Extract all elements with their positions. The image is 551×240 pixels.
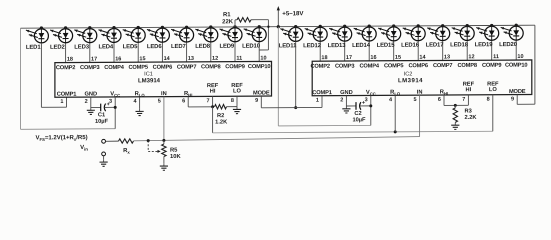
svg-text:COMP1: COMP1 bbox=[57, 92, 76, 98]
svg-text:2.2K: 2.2K bbox=[465, 115, 478, 121]
wire: dot-mode carry, IC1 MODE pin 9 to IC2 COMP1 pin 1 bbox=[261, 96, 322, 108]
svg-text:LM3914: LM3914 bbox=[398, 78, 423, 84]
wire: LED1 cathode down left side of IC1 to pin 1 bbox=[41, 43, 66, 108]
svg-text:LED13: LED13 bbox=[328, 43, 347, 49]
svg-text:17: 17 bbox=[346, 55, 352, 61]
svg-text:HI: HI bbox=[210, 89, 216, 95]
LED LED20: indicator LED symbol with emission arrows, anode on V+ rail bbox=[499, 24, 523, 60]
svg-text:R5: R5 bbox=[170, 148, 178, 154]
svg-text:10K: 10K bbox=[170, 154, 181, 160]
potentiometer R5 10K (wiper dashed to node) bbox=[148, 140, 181, 160]
svg-text:14: 14 bbox=[419, 55, 426, 61]
wire: IC2 pin 5 (IN) down to input line bbox=[419, 95, 421, 136]
svg-text:IN: IN bbox=[417, 90, 423, 96]
svg-text:COMP3: COMP3 bbox=[80, 65, 99, 71]
op-amp/driver IC2 LM3914 block bbox=[312, 60, 532, 96]
LED LED9: indicator LED symbol with emission arrows, anode on V+ rail bbox=[219, 25, 242, 61]
svg-text:COMP8: COMP8 bbox=[457, 63, 476, 69]
svg-text:+5–18V: +5–18V bbox=[282, 10, 304, 17]
svg-text:10µF: 10µF bbox=[95, 119, 109, 125]
wire: input line from Rx to IC2 pin 5, taps for IC1 pin 5 and R5 bbox=[134, 137, 420, 143]
svg-text:5: 5 bbox=[413, 97, 416, 103]
svg-text:8: 8 bbox=[487, 97, 490, 103]
svg-text:R2: R2 bbox=[217, 113, 224, 119]
node ground return terminal below Vin bbox=[100, 152, 108, 166]
svg-text:16: 16 bbox=[115, 56, 121, 62]
svg-text:LED6: LED6 bbox=[147, 44, 162, 50]
LED LED17: indicator LED symbol with emission arrows, anode on V+ rail bbox=[426, 24, 450, 60]
capacitor C1 10uF electrolytic, IC1 pin 2 to pin 3 bbox=[91, 102, 115, 125]
svg-text:LED17: LED17 bbox=[426, 42, 445, 48]
svg-text:LED5: LED5 bbox=[123, 44, 138, 50]
svg-text:LED18: LED18 bbox=[450, 42, 469, 48]
ground at IC1 pin 2 (GND) bbox=[87, 97, 95, 114]
capacitor C2 10uF electrolytic, IC2 pin 2 to pin 3 bbox=[346, 100, 370, 123]
svg-text:2: 2 bbox=[340, 97, 343, 103]
svg-text:14: 14 bbox=[164, 56, 171, 62]
svg-text:1: 1 bbox=[60, 99, 63, 105]
ground below R5 bbox=[160, 157, 168, 171]
svg-text:GND: GND bbox=[84, 91, 97, 97]
op-amp/driver IC1 LM3914 block bbox=[55, 61, 272, 97]
svg-text:LED1: LED1 bbox=[26, 45, 41, 51]
svg-text:Rx: Rx bbox=[123, 148, 130, 155]
wire: V+ from rail down between ICs to IC2 pin 3 bbox=[278, 26, 371, 126]
resistor R1 22K (parallel with LED10, V+ to pin 10 of IC1) bbox=[222, 12, 269, 50]
svg-text:11: 11 bbox=[236, 56, 242, 62]
LED LED19: indicator LED symbol with emission arrows, anode on V+ rail bbox=[475, 24, 499, 60]
svg-text:LED8: LED8 bbox=[195, 44, 210, 50]
wire: IC2 MODE pin 9 to V+ rail (right side) bbox=[517, 25, 535, 104]
LED LED13: indicator LED symbol with emission arrows, anode on V+ rail bbox=[328, 25, 352, 61]
ground below R3 bbox=[451, 122, 459, 129]
svg-text:11: 11 bbox=[493, 54, 499, 60]
svg-text:LED12: LED12 bbox=[303, 43, 322, 49]
svg-text:COMP2: COMP2 bbox=[310, 64, 329, 70]
LED LED10: indicator LED symbol with emission arrows, anode on V+ rail bbox=[242, 25, 266, 61]
svg-text:22K: 22K bbox=[222, 19, 234, 25]
svg-text:COMP6: COMP6 bbox=[153, 65, 172, 71]
svg-text:COMP1: COMP1 bbox=[312, 90, 331, 96]
svg-text:6: 6 bbox=[438, 97, 441, 103]
svg-text:COMP7: COMP7 bbox=[433, 63, 452, 69]
wire: V+ LED anode rail across top bbox=[21, 25, 535, 28]
svg-text:COMP3: COMP3 bbox=[335, 64, 354, 70]
LED LED18: indicator LED symbol with emission arrows, anode on V+ rail bbox=[450, 24, 474, 60]
svg-text:15: 15 bbox=[139, 56, 145, 62]
svg-text:LED3: LED3 bbox=[74, 44, 89, 50]
wire: IC2 pin 3 (Vcc) down to V+ line from supply bbox=[369, 95, 372, 125]
wire: IC1 pin 6 (R_HI) tied to pin 7 (REF HI) bbox=[188, 96, 214, 108]
resistor Rx in series with input/reference bbox=[119, 139, 134, 155]
svg-text:C1: C1 bbox=[98, 112, 105, 118]
LED LED12: indicator LED symbol with emission arrows, anode on V+ rail bbox=[303, 25, 327, 61]
svg-text:COMP4: COMP4 bbox=[359, 63, 379, 69]
svg-text:COMP6: COMP6 bbox=[408, 63, 427, 69]
svg-text:IN: IN bbox=[161, 91, 167, 97]
IC2 bottom pin numbers 1..9 bbox=[316, 96, 514, 103]
wire: IC2 pin 6 (R_HI) tied to pin 7 (REF HI) bbox=[444, 95, 468, 107]
svg-text:COMP2: COMP2 bbox=[56, 65, 75, 71]
svg-text:COMP10: COMP10 bbox=[248, 64, 270, 70]
IC1 top pin numbers 18..10 bbox=[67, 55, 267, 62]
svg-text:LED2: LED2 bbox=[50, 45, 65, 51]
svg-text:17: 17 bbox=[91, 56, 97, 62]
svg-text:5: 5 bbox=[158, 98, 161, 104]
node Vin input terminal bbox=[80, 139, 105, 151]
LED LED11: indicator LED symbol with emission arrows, anode on V+ rail bbox=[279, 25, 303, 49]
svg-text:HI: HI bbox=[466, 87, 472, 93]
ground at IC1 pin 8 (REF LO) bbox=[233, 96, 241, 113]
LED LED3: indicator LED symbol with emission arrows, anode on V+ rail bbox=[74, 26, 97, 62]
svg-text:9: 9 bbox=[511, 96, 514, 102]
IC2 top pin numbers 18..10 bbox=[321, 54, 523, 61]
IC1 bottom pin numbers 1..9 bbox=[60, 98, 258, 105]
svg-text:IC1: IC1 bbox=[144, 72, 153, 78]
wire: IC2 pin 4 (R_LO) down to reference line bbox=[394, 95, 396, 132]
wire: IC1 REF HI (pin 7) down and across to IC2 R_LO (pin 4) and REF LO (pin 8) bbox=[213, 95, 493, 135]
svg-text:18: 18 bbox=[321, 55, 327, 61]
svg-text:COMP9: COMP9 bbox=[225, 64, 244, 70]
node +5-18V supply entry with up arrow bbox=[277, 6, 305, 28]
resistor R2 1.2K between IC1 pin 7 and pin 8 bbox=[215, 104, 238, 125]
svg-text:12: 12 bbox=[212, 56, 218, 62]
svg-text:R3: R3 bbox=[465, 108, 472, 114]
svg-text:COMP10: COMP10 bbox=[505, 63, 527, 69]
wire: input line from Vin terminal bbox=[106, 140, 119, 142]
LED LED7: indicator LED symbol with emission arrows, anode on V+ rail bbox=[171, 26, 194, 62]
svg-text:1.2K: 1.2K bbox=[215, 119, 228, 125]
svg-text:LED16: LED16 bbox=[401, 43, 420, 49]
svg-text:COMP4: COMP4 bbox=[104, 65, 124, 71]
LED LED6: indicator LED symbol with emission arrows, anode on V+ rail bbox=[147, 26, 170, 62]
svg-text:LED15: LED15 bbox=[377, 43, 396, 49]
svg-text:IC2: IC2 bbox=[404, 71, 413, 77]
svg-text:LO: LO bbox=[233, 89, 241, 95]
svg-text:13: 13 bbox=[444, 54, 450, 60]
svg-text:7: 7 bbox=[462, 97, 465, 103]
svg-text:MODE: MODE bbox=[509, 89, 526, 95]
svg-text:LED7: LED7 bbox=[171, 44, 186, 50]
LED LED5: indicator LED symbol with emission arrows, anode on V+ rail bbox=[123, 26, 146, 62]
svg-text:10µF: 10µF bbox=[352, 117, 366, 123]
svg-text:GND: GND bbox=[340, 90, 353, 96]
svg-text:LED10: LED10 bbox=[242, 43, 261, 49]
IC1 bottom pin labels bbox=[57, 83, 270, 99]
svg-text:LED9: LED9 bbox=[219, 44, 234, 50]
svg-text:8: 8 bbox=[231, 98, 234, 104]
svg-text:13: 13 bbox=[188, 56, 194, 62]
svg-text:9: 9 bbox=[255, 98, 258, 104]
svg-text:1: 1 bbox=[316, 98, 319, 104]
svg-text:LM3914: LM3914 bbox=[138, 78, 161, 84]
svg-text:COMP7: COMP7 bbox=[177, 64, 196, 70]
wire: IC1 pin 3 (Vcc) down to V+ bottom line bbox=[114, 97, 117, 129]
svg-text:Vin: Vin bbox=[80, 145, 88, 152]
resistor R3 2.2K from IC2 REF to ground bbox=[453, 105, 477, 122]
svg-text:COMP5: COMP5 bbox=[128, 65, 147, 71]
svg-text:15: 15 bbox=[395, 55, 401, 61]
value label: full-scale formula bbox=[36, 135, 88, 142]
wire: IC1 pin 5 (IN) down to input line bbox=[163, 97, 165, 141]
LED LED8: indicator LED symbol with emission arrows, anode on V+ rail bbox=[195, 25, 218, 61]
svg-text:18: 18 bbox=[67, 57, 73, 63]
svg-text:LED14: LED14 bbox=[352, 43, 371, 49]
svg-text:LO: LO bbox=[489, 87, 497, 93]
svg-text:7: 7 bbox=[206, 98, 209, 104]
svg-text:10: 10 bbox=[260, 55, 266, 61]
svg-text:COMP9: COMP9 bbox=[482, 63, 501, 69]
wire: V+ rail left end down and along bottom to IC1 pin 3 (Vcc) bbox=[21, 28, 116, 130]
svg-text:2: 2 bbox=[85, 99, 88, 105]
IC1 top pin labels COMP2..COMP10 bbox=[56, 64, 271, 71]
svg-text:LED20: LED20 bbox=[499, 42, 518, 48]
ground at IC1 pin 4 (R_LO) bbox=[136, 97, 144, 116]
svg-text:COMP5: COMP5 bbox=[384, 63, 403, 69]
LED LED14: indicator LED symbol with emission arrows, anode on V+ rail bbox=[352, 24, 376, 60]
LED LED16: indicator LED symbol with emission arrows, anode on V+ rail bbox=[401, 24, 425, 60]
svg-text:COMP8: COMP8 bbox=[201, 64, 220, 70]
svg-text:10: 10 bbox=[517, 54, 523, 60]
svg-text:16: 16 bbox=[370, 55, 376, 61]
LED LED2: indicator LED symbol with emission arrows, anode on V+ rail bbox=[50, 26, 73, 62]
svg-text:LED4: LED4 bbox=[98, 44, 113, 50]
svg-text:6: 6 bbox=[182, 98, 185, 104]
svg-text:12: 12 bbox=[468, 54, 474, 60]
LED LED15: indicator LED symbol with emission arrows, anode on V+ rail bbox=[377, 24, 401, 60]
IC2 top pin labels COMP2..COMP10 bbox=[310, 63, 527, 70]
svg-text:LED11: LED11 bbox=[279, 43, 297, 49]
IC2 bottom pin labels bbox=[312, 81, 526, 97]
wire: LED11 cathode down between ICs to carry wire / IC2 pin 1 bbox=[294, 41, 297, 109]
LED LED4: indicator LED symbol with emission arrows, anode on V+ rail bbox=[98, 26, 121, 62]
svg-text:VFS=1.2V(1+Rx/R5): VFS=1.2V(1+Rx/R5) bbox=[36, 135, 88, 142]
svg-text:MODE: MODE bbox=[253, 90, 270, 96]
svg-text:R1: R1 bbox=[223, 12, 231, 18]
LED LED1: indicator LED symbol with emission arrows, anode on V+ rail bbox=[26, 26, 49, 50]
svg-text:LED19: LED19 bbox=[475, 42, 494, 48]
ground at IC2 pin 2 (GND) bbox=[342, 96, 350, 113]
svg-text:C2: C2 bbox=[354, 111, 361, 117]
